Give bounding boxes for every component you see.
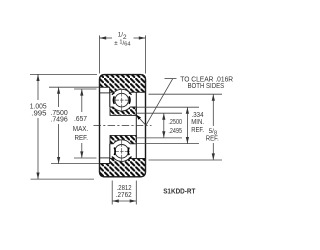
shield left top crimp tick [112,93,115,95]
dim 1/2 extension line right [145,35,147,73]
dim .334 extension line top [136,106,199,108]
left land face line top [109,92,111,107]
ball bottom [115,145,129,159]
dim 1/2 extension line left [99,35,101,73]
dim .2812 extension line left [111,181,113,205]
svg-text:± 1/64: ± 1/64 [114,39,130,47]
svg-text:.2495: .2495 [168,128,182,135]
dim .2500 dimension line with arrows [163,113,165,138]
dim .657 extension line top [74,88,97,90]
dim 5/8 dimension line with arrows [212,94,214,126]
shield right top [128,96,131,104]
svg-text:.7496: .7496 [50,117,67,124]
right land face line (full, inner ring extended face) [135,92,137,158]
shield left bottom crimp tick [112,157,115,159]
dim .657 extension line bottom [74,157,97,159]
svg-text:1.005: 1.005 [30,103,47,110]
svg-text:REF.: REF. [75,135,89,142]
dim .334 extension line bottom [136,143,199,145]
svg-text:.334: .334 [192,112,204,119]
dim 1/2 dimension line right with arrow [134,37,146,39]
svg-text:.657: .657 [74,116,87,123]
svg-text:REF.: REF. [191,127,204,134]
left land face line bottom [109,144,111,159]
inner ring bottom section (hatched) [110,135,136,143]
centerline [94,124,152,126]
dim .2812 dimension line with arrows [112,200,136,202]
svg-text:BOTH SIDES: BOTH SIDES [188,83,225,90]
shield right bottom [127,148,130,156]
dim 1/2 dimension line left with arrow [100,37,113,39]
ball top [115,93,129,107]
dim 5/8 extension line bottom [149,159,223,161]
shield right top crimp tick [129,93,132,95]
svg-text:REF.: REF. [206,136,219,143]
dim 1.005 dimension line with arrows [37,74,39,100]
inner ring top section (hatched) [110,107,136,115]
shield slot line top-left [100,92,110,94]
leader arrowhead [136,115,141,120]
dim .2812 extension line right [135,181,137,205]
shield left bottom [113,148,116,156]
leader line bounce to corner [137,115,146,125]
svg-text:MIN.: MIN. [191,119,204,126]
outer ring bottom section (hatched) [100,159,146,177]
leader line horizontal [165,78,177,80]
shield right bottom crimp tick [129,157,132,159]
dim .2500 extension line bottom [136,137,182,139]
dim .334 dimension line with arrows [186,107,188,143]
dim .7500 extension line bottom [51,163,99,165]
dim 5/8 extension line top [149,93,223,95]
svg-text:.2762: .2762 [116,192,132,199]
outer ring envelope [100,75,146,177]
dim 1.005 extension line top [30,73,97,75]
shield left top [112,96,115,104]
dim .2500 extension line top [136,112,182,114]
shield slot line bottom-left [100,157,110,159]
ball top crosshair [121,90,123,112]
svg-text:MAX.: MAX. [73,126,89,133]
ball bottom crosshair [121,140,123,162]
dim 1.005 extension line bottom [31,178,95,180]
dim .7500 extension line top [49,86,99,88]
outer ring top section (hatched) [100,75,146,93]
dim .7500 dimension line with arrows [58,87,60,107]
dim .657 dimension line with arrows [81,89,83,112]
svg-text:.2500: .2500 [168,119,182,126]
svg-text:.995: .995 [31,111,46,118]
svg-text:S1KDD-RT: S1KDD-RT [163,186,195,195]
leader line diagonal [146,79,173,126]
